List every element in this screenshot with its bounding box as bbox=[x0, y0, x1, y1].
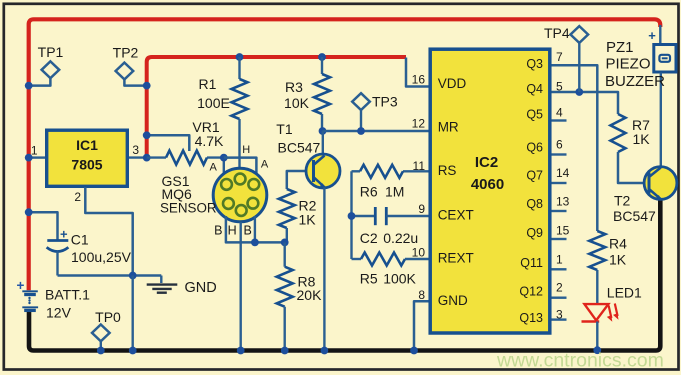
svg-text:IC2: IC2 bbox=[475, 154, 498, 171]
wire VR1 tap bbox=[147, 135, 190, 151]
wire T1 collector bbox=[322, 131, 324, 155]
svg-text:Q12: Q12 bbox=[519, 285, 543, 299]
svg-text:C2: C2 bbox=[360, 230, 378, 246]
transistor T2 BC547 bbox=[644, 167, 677, 200]
svg-text:R4: R4 bbox=[609, 236, 627, 252]
node ground rail junction bbox=[129, 347, 137, 355]
svg-text:20K: 20K bbox=[297, 287, 323, 303]
wire R3 bottom lead bbox=[321, 114, 323, 131]
svg-text:1: 1 bbox=[31, 144, 38, 158]
wire R2 top bbox=[287, 171, 314, 189]
svg-text:C1: C1 bbox=[71, 231, 89, 247]
transistor T1 BC547 bbox=[306, 154, 340, 188]
wire R8 bottom bbox=[284, 307, 286, 351]
svg-text:14: 14 bbox=[556, 166, 570, 180]
wire R2 bottom bbox=[286, 228, 288, 242]
svg-text:100E: 100E bbox=[197, 95, 230, 111]
svg-text:TP2: TP2 bbox=[113, 45, 139, 61]
pin stub 13 bbox=[552, 210, 567, 212]
pin stub 14 bbox=[552, 182, 567, 184]
wire IC1 pin1 bbox=[29, 156, 45, 158]
svg-text:Q4: Q4 bbox=[526, 82, 543, 96]
svg-text:Q3: Q3 bbox=[526, 57, 543, 71]
resistor R4 1K bbox=[589, 231, 605, 270]
IC1 7805 regulator box bbox=[47, 130, 128, 186]
wire buzzer + from rail bbox=[659, 25, 661, 44]
battery BATT.1 12V symbol bbox=[22, 290, 38, 292]
wire MR (pin12) bbox=[323, 130, 429, 132]
resistor R1 100E bbox=[232, 79, 248, 119]
svg-text:4.7K: 4.7K bbox=[195, 133, 224, 149]
svg-text:12V: 12V bbox=[46, 305, 72, 321]
svg-text:Q13: Q13 bbox=[519, 311, 543, 325]
test point TP4 diamond bbox=[571, 26, 589, 43]
resistor R2 1K bbox=[279, 189, 295, 228]
capacitor C1 plates bbox=[47, 239, 68, 242]
svg-text:R1: R1 bbox=[199, 76, 217, 92]
svg-text:T1: T1 bbox=[276, 121, 293, 137]
svg-text:10: 10 bbox=[412, 245, 426, 259]
svg-text:8: 8 bbox=[418, 288, 425, 302]
svg-text:1: 1 bbox=[556, 252, 563, 266]
pin stub 2 bbox=[552, 297, 567, 299]
svg-text:1K: 1K bbox=[633, 131, 651, 147]
wire C2 right lead (pin9) bbox=[386, 215, 428, 217]
wire ground bus bbox=[58, 274, 162, 276]
svg-text:100K: 100K bbox=[383, 271, 416, 287]
node TP3 junction bbox=[357, 127, 365, 135]
test point TP3 diamond bbox=[352, 93, 370, 110]
svg-text:4: 4 bbox=[556, 105, 563, 119]
pin stub 4 bbox=[552, 119, 567, 121]
wire R1 top lead bbox=[238, 57, 240, 79]
wire to ground symbol bbox=[160, 276, 162, 284]
wire R5 right lead (pin10) bbox=[405, 258, 429, 260]
svg-text:PZ1: PZ1 bbox=[606, 39, 634, 56]
svg-text:LED1: LED1 bbox=[607, 285, 642, 301]
svg-text:10K: 10K bbox=[284, 95, 310, 111]
node T1 emitter ground junction bbox=[321, 347, 329, 355]
svg-text:15: 15 bbox=[556, 223, 570, 237]
wire red +5V rail (IC1 out to VDD) bbox=[147, 57, 406, 158]
svg-text:R6: R6 bbox=[360, 183, 378, 199]
node sensor A junction bbox=[220, 154, 228, 162]
wire R5 left lead bbox=[352, 258, 362, 260]
wire buzzer - to T2 collector bbox=[660, 73, 662, 168]
wire Q4 pin5 bbox=[552, 92, 619, 114]
wire C2 left lead bbox=[352, 215, 376, 217]
svg-text:Q8: Q8 bbox=[526, 197, 543, 211]
node R3 top junction bbox=[318, 53, 326, 61]
node TP1 junction bbox=[25, 82, 33, 90]
node C1 rail junction bbox=[25, 208, 33, 216]
svg-text:16: 16 bbox=[412, 72, 426, 86]
node TP2 junction bbox=[143, 82, 151, 90]
resistor R6 1M bbox=[360, 165, 403, 178]
svg-text:IC1: IC1 bbox=[76, 137, 98, 153]
svg-text:7: 7 bbox=[556, 50, 563, 64]
wire C1 to rail bbox=[29, 212, 58, 240]
wire ground to rail bbox=[131, 276, 133, 351]
wire GND (pin8) bbox=[414, 301, 429, 350]
svg-text:BC547: BC547 bbox=[613, 208, 656, 224]
pin stub 6 bbox=[552, 153, 567, 155]
wire VR1 left lead bbox=[147, 156, 166, 158]
wire RS (pin11) lead bbox=[403, 170, 429, 172]
svg-text:REXT: REXT bbox=[438, 251, 474, 266]
wire R8 top bbox=[284, 242, 286, 266]
test point TP0 diamond bbox=[92, 325, 110, 342]
svg-text:+: + bbox=[16, 278, 24, 293]
svg-text:SENSOR: SENSOR bbox=[160, 200, 217, 215]
svg-text:1K: 1K bbox=[299, 212, 317, 228]
pin stub 1 bbox=[552, 268, 567, 270]
svg-text:GND: GND bbox=[438, 293, 468, 308]
wire RC vertical bus bbox=[350, 171, 352, 259]
test point TP2 diamond bbox=[116, 63, 134, 80]
svg-text:Q5: Q5 bbox=[526, 108, 543, 122]
svg-text:100u,25V: 100u,25V bbox=[71, 249, 132, 265]
svg-text:H: H bbox=[242, 144, 250, 156]
node IC1 pin1 junction bbox=[25, 154, 33, 162]
wire sensor A-right bracket bbox=[224, 158, 257, 174]
wire sensor B-left bbox=[226, 216, 285, 242]
svg-text:3: 3 bbox=[132, 143, 139, 157]
svg-text:13: 13 bbox=[556, 194, 570, 208]
svg-text:0.22u: 0.22u bbox=[383, 230, 418, 246]
svg-text:TP1: TP1 bbox=[38, 44, 64, 60]
wire R1 bottom lead (H) bbox=[238, 119, 240, 170]
wire TP0 stem bbox=[100, 341, 102, 350]
svg-text:www.cntronics.com: www.cntronics.com bbox=[496, 350, 664, 372]
node R1 top junction bbox=[236, 53, 244, 61]
wire sensor H-bottom to ground bbox=[239, 222, 241, 351]
pin stub 3 bbox=[552, 318, 567, 320]
gas sensor GS1 MQ6 body bbox=[213, 168, 267, 222]
svg-text:+: + bbox=[648, 28, 656, 43]
node pin8 ground junction bbox=[410, 347, 418, 355]
node LED1 ground junction bbox=[593, 346, 601, 354]
svg-text:PIEZO: PIEZO bbox=[606, 56, 651, 73]
wire TP4 stem bbox=[578, 43, 580, 92]
svg-text:+: + bbox=[60, 227, 68, 242]
IC2 4060 box bbox=[430, 49, 550, 333]
svg-text:1K: 1K bbox=[609, 252, 627, 268]
capacitor C2 0.22u bbox=[374, 207, 377, 225]
svg-text:BATT.1: BATT.1 bbox=[45, 287, 90, 303]
svg-text:H: H bbox=[228, 224, 237, 238]
svg-text:BUZZER: BUZZER bbox=[605, 73, 665, 90]
svg-text:9: 9 bbox=[418, 202, 425, 216]
svg-text:Q9: Q9 bbox=[526, 226, 543, 240]
wire TP1 to rail bbox=[29, 78, 50, 85]
svg-text:VDD: VDD bbox=[438, 76, 467, 91]
svg-text:A: A bbox=[210, 162, 218, 174]
wire VDD (pin16) bbox=[406, 58, 429, 87]
resistor R3 10K bbox=[314, 74, 330, 114]
wire black ground rail bbox=[29, 199, 660, 351]
wire TP2 to rail bbox=[124, 79, 146, 85]
node TP4 junction bbox=[575, 88, 583, 96]
svg-text:2: 2 bbox=[556, 280, 563, 294]
node VR1 tap junction bbox=[143, 131, 151, 139]
svg-text:MR: MR bbox=[438, 120, 459, 135]
node C2 junction bbox=[348, 212, 356, 220]
svg-text:12: 12 bbox=[412, 116, 426, 130]
svg-text:TP4: TP4 bbox=[544, 25, 570, 41]
svg-text:Q7: Q7 bbox=[526, 169, 543, 183]
svg-text:Q11: Q11 bbox=[520, 256, 543, 270]
svg-text:1M: 1M bbox=[385, 183, 404, 199]
svg-text:11: 11 bbox=[413, 159, 426, 173]
wire TP3 stem bbox=[360, 110, 362, 131]
ground symbol bbox=[147, 283, 178, 285]
svg-text:RS: RS bbox=[438, 163, 457, 178]
node T1 collector junction bbox=[319, 127, 327, 135]
node R8 ground junction bbox=[281, 347, 289, 355]
wire R7 bottom to T2 base bbox=[618, 152, 645, 183]
wire sensor B-right bbox=[254, 216, 256, 242]
node B-right junction bbox=[251, 239, 259, 247]
wire IC1 pin3 bbox=[129, 156, 147, 158]
wire IC1 pin2 bbox=[85, 187, 132, 276]
svg-text:TP0: TP0 bbox=[95, 309, 121, 325]
svg-text:R3: R3 bbox=[285, 79, 303, 95]
wire VR1 right lead bbox=[207, 156, 224, 158]
svg-text:2: 2 bbox=[74, 190, 81, 204]
wire R3 top lead bbox=[321, 57, 323, 74]
svg-text:CEXT: CEXT bbox=[438, 208, 474, 223]
node TP0 junction bbox=[97, 347, 105, 355]
node IC1 pin3 junction bbox=[143, 154, 151, 162]
node R2/R8 junction bbox=[281, 239, 289, 247]
node H ground junction bbox=[237, 347, 245, 355]
svg-text:BC547: BC547 bbox=[278, 140, 321, 156]
svg-text:TP3: TP3 bbox=[372, 93, 398, 109]
svg-text:B: B bbox=[244, 224, 252, 238]
svg-text:4060: 4060 bbox=[471, 176, 504, 193]
svg-text:Q6: Q6 bbox=[526, 140, 543, 154]
piezo buzzer PZ1 body bbox=[654, 45, 676, 73]
svg-text:T2: T2 bbox=[614, 193, 631, 209]
wire Q3 pin7 bbox=[552, 65, 598, 231]
resistor R7 1K bbox=[611, 114, 626, 152]
wire sensor A-left drop bbox=[223, 158, 225, 175]
wire T1 emitter bbox=[323, 188, 325, 351]
wire R4 to LED bbox=[596, 270, 598, 303]
svg-text:6: 6 bbox=[556, 137, 563, 151]
node ground junction bbox=[129, 272, 137, 280]
preset VR1 4.7K bbox=[166, 151, 207, 165]
svg-text:GND: GND bbox=[185, 280, 217, 296]
resistor R8 20K bbox=[277, 267, 293, 307]
wire LED1 cathode to ground bbox=[596, 322, 598, 351]
svg-text:A: A bbox=[261, 159, 269, 171]
resistor R5 100K bbox=[361, 253, 405, 266]
wire R6 left lead bbox=[352, 170, 361, 172]
wire red +12V rail left/top bbox=[29, 19, 661, 290]
svg-text:B: B bbox=[214, 224, 222, 238]
wire C1 bottom bbox=[56, 252, 58, 276]
svg-text:7805: 7805 bbox=[71, 157, 102, 173]
pin stub 15 bbox=[552, 238, 567, 240]
svg-text:R5: R5 bbox=[360, 271, 378, 287]
LED1 symbol bbox=[584, 304, 608, 320]
test point TP1 diamond bbox=[42, 61, 60, 78]
